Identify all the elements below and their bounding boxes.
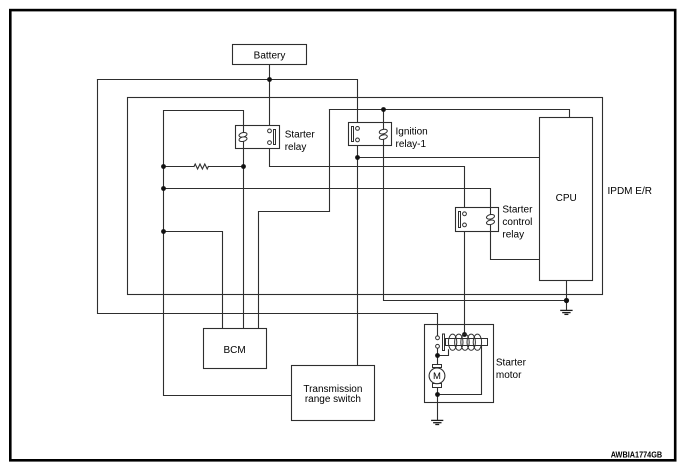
svg-text:AWBIA1774GB: AWBIA1774GB: [611, 449, 663, 459]
node CPU line junction: [355, 155, 360, 160]
wire ignition relay contact to CPU left: [358, 157, 540, 159]
node battery junction: [267, 77, 272, 82]
wire CPU bottom to ground: [566, 281, 568, 310]
motor M1: [429, 365, 445, 388]
transmission range switch box: [292, 366, 375, 421]
node BCM branch junction: [161, 229, 166, 234]
ignition relay-1 label: [396, 127, 428, 151]
svg-text:Starter: Starter: [502, 205, 533, 216]
starter motor contact circles: [436, 336, 440, 348]
starter motor label: [496, 358, 527, 382]
node motor bottom junction: [435, 392, 440, 397]
node resistor left junction: [161, 164, 166, 169]
starter control relay label: [502, 205, 533, 241]
wire starter relay contact to starter control relay contact: [270, 145, 465, 212]
resistor R: [194, 164, 208, 169]
starter motor solenoid coil: [443, 334, 488, 351]
wire ignition relay coil to ground node: [384, 140, 567, 301]
starter motor box: [425, 325, 494, 403]
svg-text:Starter: Starter: [496, 358, 527, 369]
wire battery feed down to starter relay contact: [269, 65, 271, 129]
wire starter relay coil bottom to BCM: [243, 126, 245, 329]
CPU box U1: [540, 118, 593, 281]
battery box: [233, 45, 307, 65]
svg-text:relay: relay: [502, 230, 524, 241]
svg-text:relay: relay: [285, 142, 307, 153]
wire horizontal line into CPU top: [330, 110, 570, 118]
svg-text:control: control: [502, 217, 532, 228]
node ignition coil feed junction: [381, 107, 386, 112]
wire starter relay coil top loop down to transmission range switch: [164, 111, 292, 396]
svg-text:IPDM E/R: IPDM E/R: [608, 186, 652, 197]
svg-text:Starter: Starter: [285, 130, 316, 141]
svg-text:M: M: [433, 371, 441, 382]
node coil feed junction: [161, 186, 166, 191]
wire outer loop battery to starter motor contact: [98, 80, 438, 336]
wire starter control relay contact to starter motor solenoid: [464, 227, 466, 335]
svg-text:Battery: Battery: [254, 51, 286, 62]
BCM box: [204, 329, 267, 369]
wire motor bottom to ground: [437, 388, 439, 420]
wire motor contact to motor armature: [437, 348, 439, 364]
wire resistor segment right: [208, 166, 243, 168]
starter relay: [236, 126, 280, 149]
svg-text:motor: motor: [496, 370, 522, 381]
wire resistor segment left: [164, 166, 195, 168]
wire starter control relay coil to CPU left: [491, 226, 540, 260]
node solenoid top junction: [462, 332, 467, 337]
node resistor right junction: [241, 164, 246, 169]
svg-text:Ignition: Ignition: [396, 127, 428, 138]
wire solenoid right return: [438, 346, 482, 395]
svg-text:CPU: CPU: [556, 193, 577, 204]
node CPU ground junction: [564, 298, 569, 303]
wire solenoid left return: [438, 350, 449, 356]
starter relay label: [285, 130, 316, 154]
ignition relay-1: [349, 123, 392, 146]
wire coil feed line to starter control relay coil: [164, 189, 491, 214]
starter control relay: [456, 208, 499, 232]
wire ignition relay coil feed: [383, 110, 385, 130]
wire ignition relay contact down to transmission range switch: [357, 142, 359, 366]
ground CPU: [560, 310, 572, 314]
svg-text:relay-1: relay-1: [396, 139, 427, 150]
svg-text:range switch: range switch: [305, 394, 361, 405]
node motor top junction: [435, 353, 440, 358]
wire battery bus left and down to ignition relay contact: [98, 80, 358, 127]
wire Z from CPU top line down to BCM pin3: [259, 110, 330, 329]
ground starter motor: [431, 420, 443, 424]
wire branch to BCM pin1: [164, 232, 223, 329]
transmission range switch label: [303, 384, 362, 405]
svg-text:BCM: BCM: [223, 345, 245, 356]
IPDM E/R enclosure box: [128, 98, 603, 295]
